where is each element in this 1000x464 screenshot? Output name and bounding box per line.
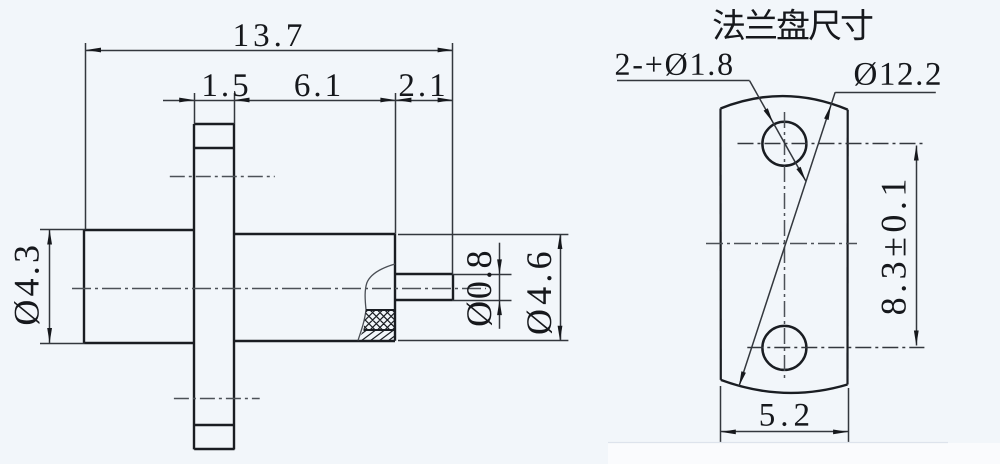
dim phi4.3 extension lines (40, 229, 85, 231)
flange top cap line (194, 147, 234, 149)
top mounting hole (762, 122, 806, 166)
dim text phi4.6 rotated (527, 252, 552, 333)
flange vertical centerline (784, 112, 786, 382)
flange top arc (721, 96, 848, 110)
dim phi0.8 line (499, 243, 501, 329)
label 2-phi1.8 underline (617, 80, 750, 82)
dim 1.5/6.1/2.1 line (163, 100, 453, 102)
single hatch pattern (294, 326, 462, 344)
center pin outline (395, 273, 453, 275)
flange bottom arc (721, 380, 848, 393)
connector left barrel outline (85, 229, 195, 231)
flange horizontal centerline (706, 243, 857, 245)
flange lower centerline (174, 398, 260, 400)
crosshatch X pattern (276, 290, 484, 350)
dim 8.3 line (916, 146, 918, 346)
dim 5.2 extension lines (720, 386, 722, 444)
top hole centerline / 8.3 extension (738, 143, 925, 145)
pale bottom-right margin band (608, 443, 1000, 464)
dim 1.5/6.1/2.1 extension lines (194, 93, 196, 124)
dim text phi0.8 rotated (467, 252, 492, 326)
dim phi0.8 extension lines (453, 274, 512, 276)
dim text 8.3+-0.1 rotated (882, 181, 906, 314)
crosshatch block borders (366, 309, 395, 311)
main axis centerline (72, 288, 486, 290)
diagonal dim phi12.2 (739, 92, 835, 386)
dim text 5.2 (761, 404, 809, 426)
label phi12.2 underline (835, 92, 936, 94)
dim 13.7 line (86, 50, 453, 52)
leader line 2-phi1.8 (750, 81, 806, 181)
flange bottom cap line (194, 424, 234, 426)
label phi12.2 (855, 62, 940, 85)
title: fa lan pan chi cun (flange dimensions) (713, 9, 872, 41)
flange front view left edge (719, 109, 721, 380)
flange front view right edge (846, 110, 848, 385)
bottom mounting hole (762, 326, 806, 370)
dim text phi4.3 rotated (14, 246, 39, 324)
dim 13.7 extension lines (85, 43, 87, 230)
dim text 1.5 (204, 74, 247, 96)
dim phi4.6 line (560, 234, 562, 341)
dim phi4.6 extension lines (398, 234, 568, 236)
connector right barrel outline (235, 233, 396, 235)
dim text 2.1 (400, 74, 444, 96)
insulator dome curve (358, 264, 395, 340)
bottom hole centerline / 8.3 extension (747, 347, 924, 349)
dim 5.2 line (721, 431, 848, 433)
flange upper centerline (170, 176, 275, 178)
label 2-phi1.8 (616, 53, 732, 76)
dim phi4.3 line (49, 230, 51, 344)
dim text 13.7 (236, 24, 302, 46)
flange side view outline (194, 123, 234, 125)
faint photo edge line (608, 442, 948, 444)
dim text 6.1 (295, 74, 339, 96)
